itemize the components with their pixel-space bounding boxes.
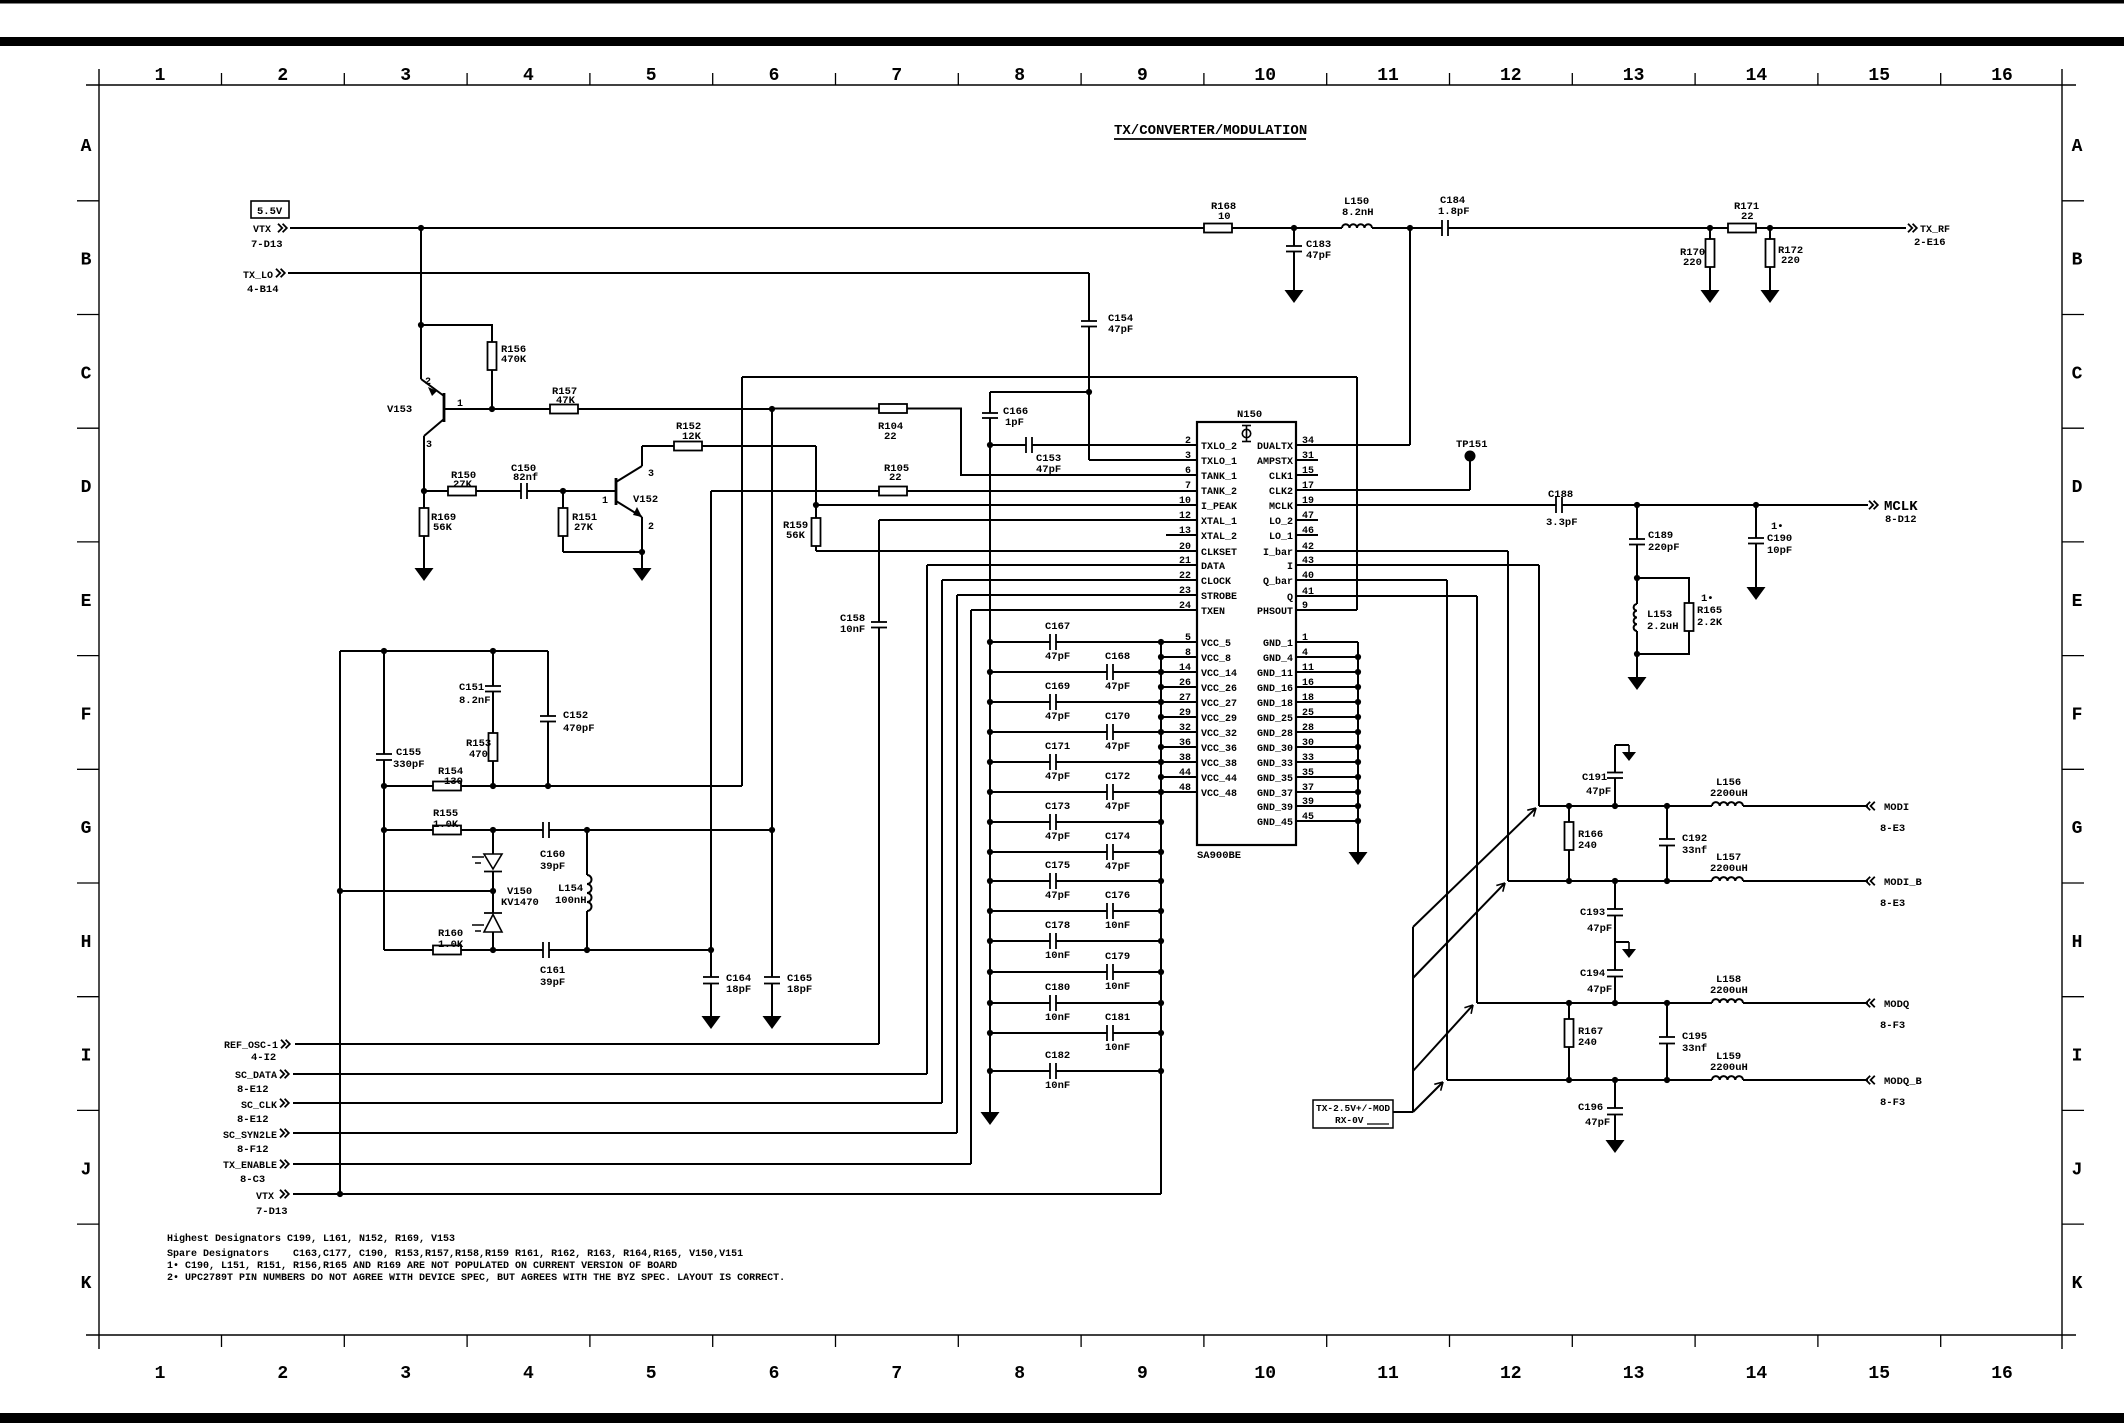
- capacitor C150 82nf: [520, 483, 522, 499]
- svg-text:2200uH: 2200uH: [1710, 1062, 1748, 1074]
- svg-text:C178: C178: [1045, 920, 1070, 932]
- svg-text:8-F3: 8-F3: [1880, 1020, 1905, 1032]
- svg-text:12: 12: [1179, 511, 1191, 522]
- svg-text:GND_35: GND_35: [1257, 774, 1293, 785]
- svg-text:J: J: [2072, 1160, 2083, 1180]
- svg-text:DATA: DATA: [1201, 562, 1225, 573]
- capacitor C165 18pF: [764, 976, 780, 978]
- svg-text:VTX: VTX: [256, 1192, 274, 1203]
- ground between C193 C194: [1615, 941, 1629, 943]
- inductor L150 8.2nH: [1342, 224, 1372, 228]
- capacitor C153 47pF: [1025, 437, 1027, 453]
- svg-text:VCC_27: VCC_27: [1201, 699, 1237, 710]
- svg-text:K: K: [81, 1274, 92, 1294]
- svg-text:2200uH: 2200uH: [1710, 788, 1748, 800]
- svg-text:470K: 470K: [501, 354, 527, 366]
- svg-text:C179: C179: [1105, 951, 1130, 963]
- svg-text:R165: R165: [1697, 605, 1722, 617]
- svg-text:4: 4: [523, 1364, 534, 1384]
- svg-text:15: 15: [1868, 66, 1890, 86]
- wire TXEN pin 24: [971, 609, 1197, 611]
- capacitor C160 39pF: [542, 822, 544, 838]
- wire MODQ row: [1477, 1002, 1712, 1004]
- wire I_PEAK pin 10: [816, 504, 1197, 506]
- svg-text:C175: C175: [1045, 860, 1070, 872]
- resistor R171 22: [1728, 224, 1756, 233]
- svg-text:VCC_14: VCC_14: [1201, 669, 1237, 680]
- capacitor C174 47pF: [990, 851, 1107, 853]
- capacitor C188 3.3pF: [1555, 497, 1557, 513]
- resistor R167 240: [1568, 1003, 1570, 1020]
- svg-text:TP151: TP151: [1456, 439, 1488, 451]
- svg-text:C: C: [81, 364, 92, 384]
- svg-text:GND_45: GND_45: [1257, 818, 1293, 829]
- svg-text:27K: 27K: [574, 522, 594, 534]
- svg-text:C160: C160: [540, 849, 565, 861]
- svg-text:VCC_44: VCC_44: [1201, 774, 1237, 785]
- svg-text:220: 220: [1781, 255, 1800, 267]
- wire V152 collector to R152: [642, 445, 674, 447]
- svg-text:47pF: 47pF: [1105, 801, 1130, 813]
- svg-text:39pF: 39pF: [540, 977, 565, 989]
- svg-text:8.2nH: 8.2nH: [1342, 207, 1374, 219]
- resistor R151 27K: [562, 491, 564, 508]
- svg-text:VCC_32: VCC_32: [1201, 729, 1237, 740]
- capacitor C172 47pF: [990, 791, 1107, 793]
- svg-text:TX_RF: TX_RF: [1920, 225, 1950, 236]
- ground at C183: [1285, 290, 1304, 303]
- ground at C196: [1606, 1140, 1625, 1153]
- svg-text:13: 13: [1623, 66, 1645, 86]
- transistor V152 NPN: [615, 478, 618, 505]
- svg-text:C192: C192: [1682, 833, 1707, 845]
- wire R160 row: [384, 949, 543, 951]
- svg-text:8-E3: 8-E3: [1880, 823, 1905, 835]
- svg-text:B: B: [81, 251, 92, 271]
- resistor R152 12K: [674, 442, 702, 451]
- ground at C190: [1747, 587, 1766, 600]
- wire MCLK line: [1296, 504, 1556, 506]
- svg-text:1• C190, L151, R151, R156,R165: 1• C190, L151, R151, R156,R165 AND R169 …: [167, 1261, 677, 1272]
- wire R155 row: [384, 829, 543, 831]
- svg-text:10: 10: [1254, 1364, 1276, 1384]
- resistor R154 130: [433, 782, 461, 791]
- svg-text:5.5V: 5.5V: [257, 206, 283, 218]
- svg-text:20: 20: [1179, 542, 1191, 553]
- svg-text:2: 2: [648, 522, 654, 533]
- svg-text:22: 22: [889, 472, 902, 484]
- svg-text:C155: C155: [396, 747, 421, 759]
- capacitor C195 33nf: [1666, 1003, 1668, 1037]
- capacitor C194 47pF: [1607, 969, 1623, 971]
- svg-text:LO_1: LO_1: [1269, 532, 1293, 543]
- wire PHSOUT to top line: [1296, 609, 1357, 611]
- wire STROBE pin 23: [957, 594, 1197, 596]
- wire R168 to C183 node: [1232, 227, 1342, 229]
- black scan bar bottom: [0, 1413, 2124, 1423]
- svg-text:1: 1: [602, 496, 608, 507]
- svg-text:130: 130: [444, 776, 463, 788]
- svg-text:22: 22: [1741, 211, 1754, 223]
- capacitor C152 470pF: [547, 651, 549, 716]
- svg-text:GND_39: GND_39: [1257, 803, 1293, 814]
- svg-text:SC_CLK: SC_CLK: [241, 1101, 277, 1112]
- svg-text:MODQ_B: MODQ_B: [1884, 1076, 1923, 1088]
- svg-text:CLK1: CLK1: [1269, 472, 1293, 483]
- phase symbol: [1242, 429, 1250, 437]
- inductor L157 2200uH: [1712, 877, 1743, 881]
- capacitor C180 10nF: [990, 1002, 1050, 1004]
- svg-text:A: A: [2072, 137, 2083, 157]
- svg-text:10nF: 10nF: [840, 624, 865, 636]
- svg-text:C176: C176: [1105, 890, 1130, 902]
- wire SC_DATA: [293, 1073, 927, 1075]
- stub pin 31 AMPSTX: [1296, 459, 1318, 461]
- ground at R170: [1701, 290, 1720, 303]
- port MCLK output: [1869, 501, 1878, 509]
- svg-text:GND_11: GND_11: [1257, 669, 1293, 680]
- svg-text:8-F3: 8-F3: [1880, 1097, 1905, 1109]
- wire SC_CLK: [293, 1102, 942, 1104]
- svg-text:82nf: 82nf: [513, 472, 538, 484]
- svg-text:240: 240: [1578, 840, 1597, 852]
- svg-text:AMPSTX: AMPSTX: [1257, 457, 1293, 468]
- wire XTAL_1 pin 12: [879, 519, 1197, 521]
- wire CLK2 pin 17: [1296, 489, 1470, 491]
- svg-text:GND_1: GND_1: [1263, 639, 1293, 650]
- svg-text:240: 240: [1578, 1037, 1597, 1049]
- ground at C164: [702, 1016, 721, 1029]
- capacitor C191 47pF: [1614, 778, 1616, 806]
- capacitor C154 47pF: [1081, 320, 1097, 322]
- wire TX_LO down to C154: [1088, 273, 1090, 321]
- svg-text:47pF: 47pF: [1045, 651, 1070, 663]
- wire decoupling right bus: [1160, 642, 1162, 1194]
- svg-text:8-E3: 8-E3: [1880, 898, 1905, 910]
- svg-text:TXLO_1: TXLO_1: [1201, 457, 1237, 468]
- wire R151 to V152 emitter: [563, 551, 642, 553]
- svg-text:47pF: 47pF: [1108, 324, 1133, 336]
- arrow to MODQ_B wire: [1413, 1082, 1443, 1112]
- svg-text:I: I: [1287, 562, 1293, 573]
- wire TX_LO: [288, 272, 1089, 274]
- svg-text:TXEN: TXEN: [1201, 607, 1225, 618]
- varactor V150 KV1470 lower: [484, 912, 502, 914]
- svg-text:I_bar: I_bar: [1263, 547, 1293, 559]
- svg-text:Q_bar: Q_bar: [1263, 576, 1293, 588]
- svg-text:N150: N150: [1237, 409, 1262, 421]
- port MODI output: [1866, 802, 1875, 810]
- capacitor C184 1.8pF: [1441, 220, 1443, 236]
- power flag 5.5V: [251, 201, 289, 218]
- resistor R156 470K: [488, 342, 497, 370]
- wire MODI_B row: [1508, 880, 1712, 882]
- wire I pin 43: [1296, 564, 1539, 566]
- svg-text:TX/CONVERTER/MODULATION: TX/CONVERTER/MODULATION: [1114, 123, 1307, 139]
- wire R171 to TX_RF: [1756, 227, 1906, 229]
- wire VTX rail: [290, 227, 1204, 229]
- svg-text:1pF: 1pF: [1005, 417, 1024, 429]
- svg-text:C190: C190: [1767, 533, 1792, 545]
- wire L150 to C184: [1372, 227, 1442, 229]
- svg-text:TX_ENABLE: TX_ENABLE: [223, 1161, 277, 1172]
- svg-text:16: 16: [1991, 66, 2013, 86]
- capacitor C166 1pF: [989, 392, 991, 413]
- svg-text:VCC_26: VCC_26: [1201, 684, 1237, 695]
- svg-text:E: E: [81, 592, 92, 612]
- wire XTAL_2 pin 13 stub: [1166, 534, 1197, 536]
- wire DUALTX to VTX rail: [1409, 228, 1411, 445]
- svg-text:8-C3: 8-C3: [240, 1174, 265, 1186]
- svg-text:47pF: 47pF: [1045, 831, 1070, 843]
- capacitor C190 10pF: [1755, 505, 1757, 538]
- resistor R155 1.0K: [433, 826, 461, 835]
- svg-text:PHSOUT: PHSOUT: [1257, 607, 1293, 618]
- svg-text:I_PEAK: I_PEAK: [1201, 502, 1237, 513]
- svg-text:GND_25: GND_25: [1257, 714, 1293, 725]
- inductor L153 2.2uH: [1636, 578, 1638, 604]
- port TX_RF output: [1908, 224, 1917, 232]
- ground at C165: [763, 1016, 782, 1029]
- wire C184 to R171: [1448, 227, 1728, 229]
- wire R157 to TANK1 node: [578, 408, 772, 410]
- wire V153 base line: [444, 408, 550, 410]
- capacitor C171 47pF: [990, 761, 1050, 763]
- svg-text:E: E: [2072, 592, 2083, 612]
- svg-text:SC_SYN2LE: SC_SYN2LE: [223, 1131, 277, 1142]
- wire SC_SYN2LE: [293, 1132, 957, 1134]
- svg-text:MODI: MODI: [1884, 802, 1909, 814]
- ground at V152 emitter: [633, 568, 652, 581]
- svg-text:18pF: 18pF: [787, 984, 812, 996]
- svg-text:10: 10: [1254, 66, 1276, 86]
- svg-text:KV1470: KV1470: [501, 897, 539, 909]
- svg-text:7-D13: 7-D13: [251, 239, 283, 251]
- svg-text:C161: C161: [540, 965, 565, 977]
- svg-text:C: C: [2072, 364, 2083, 384]
- svg-text:GND_4: GND_4: [1263, 654, 1293, 665]
- svg-text:4: 4: [523, 66, 534, 86]
- svg-text:GND_37: GND_37: [1257, 789, 1293, 800]
- capacitor C196 47pF: [1614, 1080, 1616, 1108]
- svg-text:C191: C191: [1582, 772, 1607, 784]
- svg-text:V153: V153: [387, 404, 412, 416]
- wire R152 node down: [815, 446, 817, 518]
- junction V153 collector: [421, 488, 427, 494]
- svg-text:7: 7: [891, 66, 902, 86]
- svg-text:Highest Designators C199, L161: Highest Designators C199, L161, N152, R1…: [167, 1233, 455, 1245]
- svg-text:2: 2: [277, 1364, 288, 1384]
- svg-text:1.0K: 1.0K: [433, 819, 459, 831]
- svg-text:11: 11: [1377, 66, 1399, 86]
- capacitor C155 330pF: [376, 753, 392, 755]
- svg-text:A: A: [81, 137, 92, 157]
- ground at decoupling bus: [981, 1112, 1000, 1125]
- svg-text:C189: C189: [1648, 530, 1673, 542]
- wire PHSOUT top line: [742, 376, 1357, 378]
- wire REF_OSC-1: [295, 1043, 879, 1045]
- svg-text:27K: 27K: [453, 479, 473, 491]
- svg-text:J: J: [81, 1160, 92, 1180]
- svg-text:12: 12: [1500, 66, 1522, 86]
- svg-text:VCC_29: VCC_29: [1201, 714, 1237, 725]
- wire osc left vertical: [339, 651, 341, 1194]
- wire I_bar pin 42: [1296, 550, 1508, 552]
- svg-text:13: 13: [1623, 1364, 1645, 1384]
- wire Q pin 41: [1296, 595, 1477, 597]
- wire CLKSET pin 20: [816, 550, 1197, 552]
- wire TX_ENABLE: [293, 1163, 971, 1165]
- svg-text:3: 3: [648, 469, 654, 480]
- svg-text:D: D: [81, 478, 92, 498]
- svg-text:F: F: [81, 706, 92, 726]
- capacitor C173 47pF: [990, 821, 1050, 823]
- ground at L153 tank: [1636, 654, 1638, 677]
- wire TANK_2 vertical: [710, 491, 712, 977]
- capacitor C170 47pF: [990, 731, 1107, 733]
- inductor L159 2200uH: [1712, 1076, 1743, 1080]
- capacitor C161 39pF: [542, 942, 544, 958]
- transistor V153 PNP: [443, 393, 446, 422]
- stub pin 15 CLK1: [1296, 474, 1318, 476]
- svg-text:3.3pF: 3.3pF: [1546, 517, 1578, 529]
- svg-text:XTAL_2: XTAL_2: [1201, 532, 1237, 543]
- wire collector node: [424, 490, 448, 492]
- svg-text:2: 2: [425, 377, 431, 388]
- svg-text:9: 9: [1137, 66, 1148, 86]
- capacitor C192 33nf: [1666, 806, 1668, 839]
- svg-text:14: 14: [1746, 1364, 1768, 1384]
- svg-text:GND_33: GND_33: [1257, 759, 1293, 770]
- svg-text:TXLO_2: TXLO_2: [1201, 442, 1237, 453]
- svg-text:I: I: [81, 1047, 92, 1067]
- inductor L158 2200uH: [1712, 999, 1743, 1003]
- svg-text:47pF: 47pF: [1036, 464, 1061, 476]
- svg-text:10nF: 10nF: [1045, 1012, 1070, 1024]
- svg-text:11: 11: [1377, 1364, 1399, 1384]
- wire DUALTX line down to osc: [741, 377, 743, 786]
- svg-text:8-D12: 8-D12: [1885, 514, 1917, 526]
- svg-text:15: 15: [1868, 1364, 1890, 1384]
- svg-text:56K: 56K: [433, 522, 453, 534]
- svg-text:F: F: [2072, 706, 2083, 726]
- svg-text:MODI_B: MODI_B: [1884, 877, 1923, 889]
- svg-text:7-D13: 7-D13: [256, 1206, 288, 1218]
- arrow to MODI_B wire: [1413, 883, 1505, 978]
- wire C166 top link: [990, 391, 1089, 393]
- svg-text:C182: C182: [1045, 1050, 1070, 1062]
- wire TXLO_2 pin 2: [990, 444, 1026, 446]
- svg-text:C170: C170: [1105, 711, 1130, 723]
- svg-text:REF_OSC-1: REF_OSC-1: [224, 1041, 278, 1052]
- svg-text:10nF: 10nF: [1105, 981, 1130, 993]
- svg-text:L153: L153: [1647, 609, 1672, 621]
- svg-text:VCC_36: VCC_36: [1201, 744, 1237, 755]
- svg-text:2-E16: 2-E16: [1914, 237, 1946, 249]
- svg-text:GND_30: GND_30: [1257, 744, 1293, 755]
- svg-text:470pF: 470pF: [563, 723, 595, 735]
- inductor L156 2200uH: [1712, 802, 1743, 806]
- capacitor C182 10nF: [990, 1070, 1050, 1072]
- ground at R169: [415, 568, 434, 581]
- svg-text:47pF: 47pF: [1045, 771, 1070, 783]
- svg-text:CLK2: CLK2: [1269, 487, 1293, 498]
- wire varactor mid node: [340, 890, 493, 892]
- svg-text:C169: C169: [1045, 681, 1070, 693]
- wire TANK_1 vertical: [771, 409, 773, 977]
- svg-text:6: 6: [1185, 466, 1191, 477]
- svg-text:220pF: 220pF: [1648, 542, 1680, 554]
- svg-text:CLOCK: CLOCK: [1201, 577, 1231, 588]
- svg-text:G: G: [81, 819, 92, 839]
- svg-text:47pF: 47pF: [1105, 861, 1130, 873]
- svg-text:STROBE: STROBE: [1201, 592, 1237, 603]
- label box TX-2.5V+/-MOD RX-0V: [1313, 1100, 1393, 1128]
- svg-text:47pF: 47pF: [1587, 923, 1612, 935]
- svg-text:GND_18: GND_18: [1257, 699, 1293, 710]
- svg-text:8-F12: 8-F12: [237, 1144, 269, 1156]
- svg-text:18pF: 18pF: [726, 984, 751, 996]
- svg-text:21: 21: [1179, 556, 1191, 567]
- svg-text:TANK_1: TANK_1: [1201, 472, 1237, 483]
- svg-text:47pF: 47pF: [1587, 984, 1612, 996]
- svg-text:C152: C152: [563, 710, 588, 722]
- svg-text:220: 220: [1683, 257, 1702, 269]
- svg-text:6: 6: [769, 66, 780, 86]
- svg-text:SC_DATA: SC_DATA: [235, 1071, 277, 1082]
- resistor R172 220: [1769, 228, 1771, 240]
- wire MODI row: [1539, 805, 1712, 807]
- svg-text:C172: C172: [1105, 771, 1130, 783]
- svg-text:C181: C181: [1105, 1012, 1130, 1024]
- black scan bar upper: [0, 37, 2124, 46]
- svg-text:39pF: 39pF: [540, 861, 565, 873]
- wire MODQ_B row: [1447, 1079, 1712, 1081]
- port MODQ_B output: [1866, 1076, 1875, 1084]
- svg-text:47K: 47K: [556, 395, 576, 407]
- capacitor C181 10nF: [990, 1032, 1107, 1034]
- svg-text:K: K: [2072, 1274, 2083, 1294]
- arrow to MODI wire: [1413, 808, 1536, 927]
- wire L159 to MODQ_B port: [1743, 1079, 1868, 1081]
- svg-text:V152: V152: [633, 494, 658, 506]
- capacitor C176 10nF: [990, 910, 1107, 912]
- svg-text:3: 3: [1185, 451, 1191, 462]
- wire L156 to MODI port: [1743, 805, 1868, 807]
- svg-text:3: 3: [426, 440, 432, 451]
- svg-text:C174: C174: [1105, 831, 1130, 843]
- capacitor C164 18pF: [703, 976, 719, 978]
- wire osc bias bus: [383, 651, 385, 754]
- svg-text:TANK_2: TANK_2: [1201, 487, 1237, 498]
- port MODQ output: [1866, 999, 1875, 1007]
- IC N150 SA900BE: [1197, 422, 1296, 845]
- svg-text:33nf: 33nf: [1682, 1043, 1707, 1055]
- svg-text:1.8pF: 1.8pF: [1438, 206, 1470, 218]
- capacitor C158 10nF: [878, 520, 880, 622]
- svg-text:23: 23: [1179, 586, 1191, 597]
- resistor R169 56K: [423, 491, 425, 508]
- svg-text:VCC_48: VCC_48: [1201, 789, 1237, 800]
- wire VCC stub row 777: [1161, 776, 1197, 778]
- svg-text:10nF: 10nF: [1105, 1042, 1130, 1054]
- svg-text:10: 10: [1218, 211, 1231, 223]
- wire VTX to V153 emitter: [420, 228, 422, 379]
- svg-text:C195: C195: [1682, 1031, 1707, 1043]
- svg-text:2: 2: [1185, 436, 1191, 447]
- svg-text:10pF: 10pF: [1767, 545, 1792, 557]
- wire C166 bottom / decoupling bus: [989, 418, 991, 1112]
